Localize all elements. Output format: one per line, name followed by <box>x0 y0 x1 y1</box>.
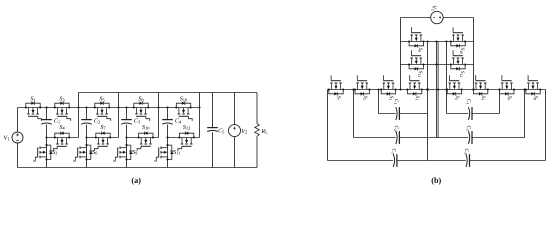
svg-text:S2: S2 <box>454 96 460 101</box>
svg-text:S10: S10 <box>459 48 465 55</box>
svg-text:S10: S10 <box>180 96 188 102</box>
svg-text:C1: C1 <box>54 119 60 125</box>
svg-text:S1: S1 <box>30 96 35 102</box>
svg-text:S6: S6 <box>92 150 98 156</box>
svg-text:C4: C4 <box>175 119 182 125</box>
svg-text:(a): (a) <box>131 176 141 185</box>
svg-text:S4: S4 <box>59 125 65 131</box>
svg-text:C1: C1 <box>465 99 471 104</box>
svg-text:V2: V2 <box>241 129 247 135</box>
svg-text:S6: S6 <box>506 96 512 101</box>
svg-text:V1: V1 <box>430 5 436 11</box>
svg-text:S7: S7 <box>100 125 106 131</box>
svg-text:S7: S7 <box>336 96 342 101</box>
svg-text:C1: C1 <box>393 99 399 104</box>
svg-text:S3: S3 <box>59 96 65 102</box>
svg-text:C3: C3 <box>463 149 469 154</box>
svg-text:S10: S10 <box>142 125 150 131</box>
svg-text:C5: C5 <box>218 129 225 135</box>
svg-text:S11: S11 <box>417 71 423 77</box>
svg-text:S11: S11 <box>173 150 180 156</box>
svg-text:S8: S8 <box>138 96 144 102</box>
svg-text:RL: RL <box>260 129 268 135</box>
svg-text:V1: V1 <box>4 136 10 142</box>
svg-text:S9: S9 <box>417 48 423 53</box>
svg-text:C3: C3 <box>134 119 141 125</box>
svg-text:S9: S9 <box>132 150 138 156</box>
svg-text:S2: S2 <box>52 150 57 156</box>
svg-text:C3: C3 <box>390 149 396 154</box>
svg-text:(b): (b) <box>431 176 441 185</box>
svg-text:S5: S5 <box>99 96 105 102</box>
svg-text:S5: S5 <box>362 96 368 101</box>
svg-text:S4: S4 <box>480 96 486 101</box>
svg-text:S12: S12 <box>183 125 191 131</box>
svg-text:C2: C2 <box>393 126 399 131</box>
svg-text:S8: S8 <box>533 96 539 101</box>
svg-text:C2: C2 <box>465 126 471 131</box>
svg-text:S1: S1 <box>414 96 420 101</box>
svg-text:S12: S12 <box>459 71 465 78</box>
svg-text:C2: C2 <box>94 119 100 125</box>
